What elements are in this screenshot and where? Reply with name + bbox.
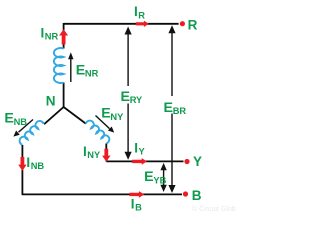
svg-text:N: N (46, 94, 56, 109)
svg-text:E: E (121, 89, 130, 105)
wire Y line (106, 160, 183, 162)
emf arrow E_NY (96, 116, 117, 135)
svg-text:R: R (138, 10, 145, 20)
winding coil N-B (cyan, diagonal) (18, 119, 44, 145)
current arrow I_NR (red, up) (59, 29, 68, 44)
wire right vertical (105, 144, 107, 162)
wire top branch lower segment (63, 83, 65, 108)
voltage arrow E_YB (double head) (160, 163, 166, 192)
voltage arrow E_BR (double head) (168, 25, 175, 193)
svg-text:I: I (83, 144, 87, 159)
voltage arrow E_RY (double head) (125, 27, 132, 160)
current arrow I_Y (red, right) (132, 158, 147, 165)
wire right diagonal N to coil (64, 107, 86, 124)
svg-text:E: E (144, 169, 153, 185)
current arrow I_NB (red, down) (18, 157, 26, 171)
svg-text:I: I (26, 155, 30, 170)
svg-text:NB: NB (14, 117, 28, 127)
terminal dot R (180, 21, 185, 26)
svg-text:Y: Y (139, 147, 146, 157)
winding coil N-Y (cyan, diagonal) (85, 119, 111, 144)
terminal dot B (183, 191, 188, 196)
current arrow I_NY (red, down) (102, 149, 110, 162)
wire bottom B line (22, 193, 182, 195)
svg-text:NB: NB (31, 161, 45, 171)
svg-text:E: E (4, 111, 13, 127)
svg-text:R: R (188, 18, 198, 33)
svg-text:B: B (135, 202, 142, 212)
terminal dot Y (184, 159, 189, 164)
svg-text:E: E (164, 100, 173, 116)
svg-text:I: I (41, 26, 45, 41)
svg-text:B: B (192, 188, 202, 203)
svg-text:E: E (76, 62, 85, 78)
svg-text:I: I (134, 140, 138, 155)
svg-text:NR: NR (45, 32, 59, 42)
svg-text:BR: BR (173, 106, 187, 116)
wire left vertical (21, 145, 23, 194)
current arrow I_R (red, right) (136, 21, 149, 27)
svg-text:NY: NY (87, 150, 101, 160)
wire R line top (64, 23, 179, 25)
svg-text:NY: NY (110, 112, 124, 122)
svg-text:Y: Y (193, 154, 202, 169)
emf arrow E_NB (12, 120, 33, 139)
svg-text:E: E (101, 106, 110, 122)
svg-text:I: I (131, 196, 135, 211)
svg-text:YB: YB (153, 175, 166, 185)
current arrow I_B (red, right) (129, 191, 144, 198)
svg-text:NR: NR (85, 69, 99, 79)
wire left diagonal N to coil (44, 107, 64, 124)
svg-text:RY: RY (130, 95, 143, 105)
svg-text:I: I (134, 4, 138, 19)
winding coil N-R (cyan) (54, 48, 64, 83)
emf arrow E_NR (68, 52, 73, 82)
svg-text:© Circuit Globe: © Circuit Globe (192, 205, 236, 213)
wire top branch upper segment (63, 23, 65, 49)
